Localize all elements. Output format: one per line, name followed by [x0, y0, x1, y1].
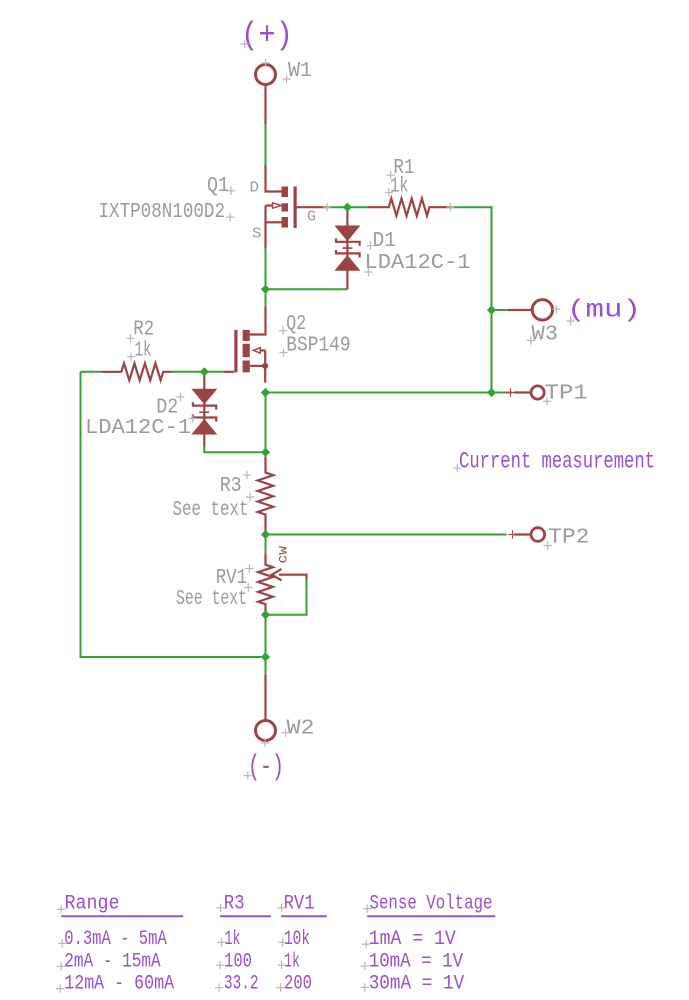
svg-text:2mA - 15mA: 2mA - 15mA [64, 950, 161, 973]
svg-text:(mu): (mu) [567, 296, 641, 325]
svg-text:30mA = 1V: 30mA = 1V [369, 972, 465, 995]
svg-text:R3: R3 [224, 893, 245, 916]
svg-text:G: G [307, 209, 316, 226]
svg-text:(+): (+) [241, 17, 293, 54]
svg-text:1k: 1k [390, 175, 409, 198]
svg-text:Current measurement: Current measurement [459, 449, 655, 475]
svg-text:LDA12C-1: LDA12C-1 [85, 417, 191, 440]
svg-text:BSP149: BSP149 [286, 334, 350, 357]
svg-text:RV1: RV1 [284, 893, 315, 916]
svg-text:W1: W1 [288, 60, 312, 83]
svg-text:D: D [250, 180, 260, 197]
svg-text:S: S [252, 226, 262, 243]
svg-text:100: 100 [224, 950, 252, 973]
svg-text:1k: 1k [284, 950, 300, 973]
svg-text:0.3mA - 5mA: 0.3mA - 5mA [64, 928, 167, 951]
svg-text:See text: See text [176, 588, 247, 611]
svg-text:D1: D1 [373, 230, 396, 253]
svg-text:Q2: Q2 [286, 313, 306, 336]
svg-text:1k: 1k [225, 928, 241, 951]
svg-text:W2: W2 [287, 718, 315, 741]
svg-text:Range: Range [65, 893, 120, 916]
svg-text:TP2: TP2 [548, 527, 589, 550]
svg-text:LDA12C-1: LDA12C-1 [365, 252, 471, 275]
svg-text:10mA = 1V: 10mA = 1V [369, 950, 464, 973]
svg-text:Q1: Q1 [207, 175, 229, 198]
svg-text:TP1: TP1 [545, 383, 588, 406]
svg-text:RV1: RV1 [216, 567, 247, 590]
svg-text:33.2: 33.2 [224, 972, 259, 995]
svg-text:1k: 1k [135, 339, 152, 362]
svg-text:W3: W3 [532, 324, 559, 347]
svg-text:12mA - 60mA: 12mA - 60mA [64, 972, 174, 995]
svg-text:cw: cw [276, 545, 292, 563]
svg-text:200: 200 [284, 972, 312, 995]
svg-text:Sense Voltage: Sense Voltage [370, 893, 493, 916]
svg-text:R3: R3 [220, 475, 242, 498]
svg-text:(-): (-) [248, 751, 284, 784]
svg-text:See text: See text [173, 499, 249, 522]
svg-text:10k: 10k [284, 928, 310, 951]
svg-text:1mA = 1V: 1mA = 1V [369, 928, 456, 951]
svg-text:IXTP08N100D2: IXTP08N100D2 [99, 201, 226, 224]
svg-text:R2: R2 [133, 319, 154, 342]
